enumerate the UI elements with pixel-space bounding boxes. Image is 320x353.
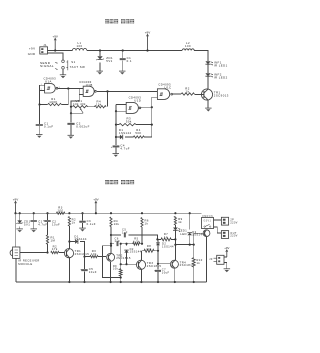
svg-text:+: + [43,220,45,223]
wire base node to R3rx [85,256,90,258]
wire U1A output [58,88,79,90]
wire Q3 collector [140,251,142,261]
wire ZD1 drop [99,51,101,57]
wire base node to C5 [84,257,86,270]
capacitor C6 coupling [117,241,118,246]
junction R3 left [115,124,117,126]
svg-text:10k: 10k [146,247,152,251]
junction Q4 coll node [174,244,176,246]
label INF1 IR LED1 [214,60,228,67]
capacitor C7 electrolytic [154,269,161,272]
junction R3 right [151,124,153,126]
svg-text:0.002uF: 0.002uF [76,124,90,128]
wire column 120 top [120,244,122,269]
title transmitter (kanji) [105,19,134,23]
wire D2a stem top [126,244,128,246]
svg-text:4.7uF: 4.7uF [120,146,130,150]
wire J1 +9V to rail [48,50,73,52]
label D2a 1SS144 [130,247,142,254]
LED INF1 (IR LED1) [205,61,212,65]
wire C2 node drop [70,107,72,123]
ground (J4) [224,269,231,272]
resistor R3rx 10k [90,249,98,258]
LED INF2 (IR LED2) [205,73,212,77]
svg-text:MODULE: MODULE [18,262,32,266]
junction C7 rail [157,281,159,283]
bottom rail (receiver) [16,281,207,283]
wire TR5 base [194,233,204,244]
svg-text:G5V1: G5V1 [204,220,212,222]
junction R9b rail [120,281,122,283]
wire R9b to rail [120,276,122,282]
junction Q2 emitter rail [110,281,112,283]
wire module output [20,252,48,254]
wire D2b stem [157,239,159,250]
wire ZD1b drop [19,213,21,220]
capacitor C2 (osc) [67,123,74,124]
wire U1A input drop [39,91,41,105]
wire Q2 feedback [102,246,120,278]
wire R2rx to Q1 base [59,252,65,254]
svg-text:S1: S1 [71,60,75,64]
label CD4093 U1B [79,80,92,87]
wire R10 stem [193,245,195,282]
junction wireA [110,234,112,236]
label J2 OUT [230,219,237,225]
power flag +9V (receiver mid) [93,197,98,213]
svg-text:LED1: LED1 [179,229,187,233]
wire C1 to ground [122,60,124,71]
label LED1 [179,229,187,236]
diode D1 (osc2) [120,135,123,140]
svg-text:2SC1815: 2SC1815 [147,264,162,268]
svg-text:10k: 10k [96,103,102,107]
wire C ends [157,238,175,240]
wire S1 to ground [62,69,64,75]
power flag +9V (transmitter left) [52,35,57,51]
svg-text:10uF: 10uF [52,222,60,226]
junction R5 right [141,243,143,245]
ground (C3b) [79,228,86,231]
label J3 OUT [230,232,237,238]
junction rail start [14,212,16,214]
wire ZD1 to ground [99,63,101,71]
svg-text:1uF: 1uF [122,230,128,234]
IR receiver module U1 [10,247,20,258]
svg-text:1uF: 1uF [115,239,121,243]
svg-text:1k: 1k [178,220,182,224]
transistor TR3 (receiver) [136,260,145,269]
svg-text:100: 100 [77,44,83,48]
wire left column (module) [15,213,17,247]
wire node to Q4 base [158,251,170,264]
wire D3 column top [189,213,191,229]
svg-text:OMRON: OMRON [202,216,213,218]
diode D3 flyback [187,233,192,236]
svg-text:220V: 220V [230,235,237,238]
resistor R1 (feedback) [48,97,62,105]
label ZD1 5V1 [106,56,113,63]
zener ZD1 [96,56,104,60]
diode D1 (receiver) [75,239,78,244]
wire R1b to out node [47,244,49,252]
wire Q3 base wire [121,263,137,265]
junction C5 rail [83,281,85,283]
label C3b [87,219,96,226]
svg-text:IR LED1: IR LED1 [214,63,228,67]
wire J4 to ground [224,263,227,269]
transistor TR2 (receiver) [107,253,115,261]
transistor TR4 (receiver) [170,260,178,268]
svg-text:+: + [80,269,82,272]
wire VR1 to R2 [88,106,95,108]
connector J1 [40,43,48,54]
junction Q3 emitter rail [140,281,142,283]
resistor R4 10k (Q2 load) [110,217,120,227]
ground (C4) [113,154,120,157]
wire A cont [128,235,157,239]
wire rail L1 to L2 [87,50,182,52]
svg-text:100: 100 [185,44,191,48]
ground (C1b) [31,229,38,232]
wire C1 drop [122,51,124,59]
wire D1 branch left [116,136,120,138]
wire C1b drop [33,213,35,220]
label ZD1b 5V1 [24,219,31,226]
pin stubs U1A inputs [40,85,45,90]
label D1 1SS144 [119,128,132,135]
label C1 0.1 [127,56,132,63]
junction TR5 base node [193,244,195,246]
label SEND SIGNAL [40,61,54,68]
connector J2 (out A) [221,217,228,225]
label D2b 1SS144 [162,242,174,249]
label CD4093 U1D [129,96,142,103]
wire R3rx to Q2 base [98,256,106,258]
wire rail L2 to corner [194,51,208,62]
svg-text:1k: 1k [197,261,201,265]
label TR3rx 2SC1815 [147,261,162,268]
label CD4093 U1A [44,77,57,84]
wire D1 to base node [80,242,85,257]
capacitor C1 (osc U1A) [36,125,43,126]
wire C4 to ground [115,148,117,154]
label C2 0.002uF [76,121,90,128]
wire Q2 emitter [110,262,112,282]
label TR4rx 2SC1815 [180,260,195,267]
junction LED col top [174,212,176,214]
wire B to R6 column [140,243,142,245]
svg-text:0.1uF: 0.1uF [44,124,54,128]
gate U1B [83,86,96,96]
wire input node to C1osc [39,105,41,124]
wire R1 ends [40,104,69,106]
label D3 1SS144 [192,230,204,237]
label CD4093 U1C [158,82,171,89]
junction wireB [110,243,112,245]
label S1 TACT SW [70,60,85,69]
junction mid-rail flag [146,49,148,51]
junction Q2 collector [110,245,112,247]
resistor R9b 10k [113,265,122,276]
junction LED col wireC [174,238,176,240]
label TR2rx 2SC1815 [116,253,131,260]
label C6c [115,236,121,243]
junction VR1 left [70,106,72,108]
wire C2 to ground [70,125,72,135]
wire relay contacts to J2 [214,219,222,221]
wire Q1 emitter [68,258,70,282]
junction D1 left [115,136,117,138]
svg-text:TACT SW: TACT SW [70,65,85,69]
svg-text:0.1: 0.1 [127,59,132,63]
potentiometer VR1 [73,99,88,113]
wire D3 bottom [189,235,191,244]
label GND (J1 pin) [28,52,36,56]
wire R2 to TR1 base [194,93,204,95]
label C5c 1uF [122,228,128,235]
junction C7 tap [157,263,159,265]
label C1 0.1uF [44,121,54,128]
ground (TR1) [205,108,212,111]
transistor TR1 [201,89,212,100]
wire U1B output [97,90,158,92]
inductor L1 [72,41,86,50]
resistor R2rx 47k (base) [51,244,59,253]
resistor R8 10k (Q3 coll) [144,244,154,252]
pin stubs U1B inputs [79,89,83,95]
wire D2a to base wire [126,253,128,265]
svg-text:LED: LED [180,232,187,236]
wire LED1b down [174,230,176,244]
svg-text:1SS144: 1SS144 [119,131,132,135]
label D1rx 1SS144 [74,234,87,241]
transistor TR5 (relay driver) [203,230,210,237]
svg-text:+: + [111,146,113,149]
svg-text:100K: 100K [49,100,57,104]
junction U1B out to R2t [106,90,108,92]
wire U1B input to VR node [71,94,79,106]
svg-text:J1: J1 [43,43,47,47]
junction D3 bottom node [189,244,191,246]
wire TR1 emitter to ground [207,100,209,108]
svg-text:1k: 1k [164,235,168,239]
junction ZD1b [19,212,21,214]
switch S1 contacts [55,60,68,70]
junction ZD1 [99,49,101,51]
svg-text:4.7k: 4.7k [133,239,140,243]
diode D2 (second) [156,243,160,245]
wire Q4 collector [174,245,176,260]
resistor R1 (receiver) [46,235,55,244]
resistor R3 in rail [56,206,64,215]
wire U1D input column [115,111,117,145]
svg-text:10uF: 10uF [162,270,170,274]
svg-text:0.1uF: 0.1uF [87,222,96,226]
svg-text:47k: 47k [52,247,58,251]
junction Q4 emitter rail [174,281,176,283]
wire C5 to rail [84,271,86,282]
svg-text:10k: 10k [91,252,97,256]
inductor L2 [182,41,194,50]
label C1b 4.7uF [38,219,47,226]
title receiver (kanji) [105,180,134,184]
label INF2 IR LED2 [214,72,228,79]
junction +9V mid [95,212,97,214]
junction D2a top [125,243,127,245]
label relay OMRON [202,216,213,218]
junction Q3 coll node [157,250,159,252]
svg-text:10k: 10k [113,268,119,271]
junction C3b top [81,212,83,214]
wire node wire y244.7 [175,244,193,246]
junction wireC node [156,238,158,240]
junction Q2 base node [83,256,85,258]
resistor R10 1k [192,258,203,267]
junction R2b top [68,212,70,214]
wire C7 stem [157,264,159,282]
junction Q1 emitter rail [68,281,70,283]
svg-text:1k: 1k [186,90,190,94]
resistor R5 4.7k [133,237,140,246]
wire D1 to R4 [125,136,133,138]
junction D2a base [125,263,127,265]
wire C3b to ground [82,223,84,228]
wire LED1 to LED2 [207,64,209,73]
junction Q1 collector node [68,240,70,242]
junction C1 top [122,49,124,51]
label TR1 2SC9013 [214,91,229,98]
svg-text:4.7uF: 4.7uF [38,222,47,226]
wire Q1 coll to D1 [69,241,75,243]
junction R10 rail [193,281,195,283]
capacitor C1 (rail) [120,59,126,60]
resistor R2 (base) [181,86,194,95]
wire ZD1b to ground [19,226,21,228]
svg-text:2SC1815: 2SC1815 [75,252,90,256]
relay RL1 box [202,218,214,229]
resistor R4 (osc2) [133,128,144,138]
label J4 [209,257,213,261]
wire Q1 collector [68,242,70,249]
wire R4 to out column [144,136,152,138]
label +9V (J1 pin) [29,47,36,51]
junction base-column cross [120,263,122,265]
svg-text:1SS144: 1SS144 [162,244,174,248]
junction module out node [46,251,48,253]
label IR RECEIVER MODULE [18,259,40,266]
wire C3b drop [82,213,84,220]
resistor R3 [119,117,136,126]
label C5rx 10uF [89,267,97,274]
rail top (receiver) [16,212,202,214]
svg-text:50k: 50k [126,120,132,124]
gate U1C [157,89,172,100]
diode D2 (first) [124,250,128,253]
label C7rx 10uF [162,268,170,275]
svg-text:+: + [154,269,156,272]
resistor R9 1k (LED) [174,216,182,225]
wire Q2 collector [110,246,112,253]
wire R3 ends [116,124,152,126]
junction column 120 top [120,243,122,245]
pin stubs U1D [116,104,126,111]
svg-text:2SC1815: 2SC1815 [116,256,131,260]
junction +9V flag [54,49,56,51]
capacitor C5 coupling [124,233,125,238]
svg-text:1M: 1M [51,239,56,243]
junction U1D input tie [115,110,117,112]
wire Q3 coll wire [141,250,158,252]
capacitor C2 electrolytic [43,220,51,223]
wire U1C out to R2 [173,93,181,95]
wire C2b to R1b [47,222,49,235]
svg-text:220V: 220V [230,221,237,224]
svg-text:10k 40k: 10k 40k [73,102,86,106]
capacitor C1 (receiver) [31,221,37,222]
power flag +9V (receiver left) [13,197,18,213]
svg-text:SIGNAL: SIGNAL [40,64,54,68]
wire U1A feedback drop [67,89,69,105]
resistor R7 1k [161,232,171,241]
svg-text:10uF: 10uF [89,270,97,274]
junction C2 node [70,112,72,114]
power flag +9V (mid rail) [145,31,150,51]
wire +9V to J4 [224,256,227,258]
wire J1 GND pin [48,53,64,60]
wire A with C5 [111,234,121,236]
svg-text:2SC9013: 2SC9013 [214,94,229,98]
wire B mid [121,243,133,245]
resistor R2 1k (collector load) [68,217,76,227]
wire R9 to LED1b [174,225,176,227]
capacitor C4 (osc2) [111,146,120,149]
svg-text:U1D: U1D [134,99,141,103]
junction U1A feedback [67,87,69,89]
label TR1rx 2SC1815 [75,249,90,256]
wire R2b to collector node [68,226,70,242]
label relay G5V1 [204,220,212,222]
ground (ZD1) [97,71,104,74]
pin numbers U1A [41,84,61,91]
junction D3 top [189,212,191,214]
junction R4b top [110,212,112,214]
svg-text:1k: 1k [72,221,76,225]
junction U1D out node [151,106,153,108]
capacitor C5 electrolytic 10uF [80,269,88,272]
connector J3 (out B) [221,231,228,239]
svg-text:50K: 50K [135,131,141,135]
svg-text:100: 100 [58,208,64,212]
wire U1C-in/U1D-out vertical [151,97,153,137]
wire VR1 wiper to C2 node [71,112,83,114]
wire R4b down [110,227,112,246]
wire relay to J3 connector [214,227,222,233]
pin stubs U1C [152,91,158,97]
resistor R2 (osc) [94,100,106,108]
wire module to bottom rail [15,258,17,282]
svg-text:1SS144: 1SS144 [74,237,87,241]
relay contact symbol [204,224,211,227]
transistor TR1 (receiver) [64,249,73,258]
ground (S1) [60,75,66,78]
wire U1D output [141,106,152,108]
junction U1A input node [38,103,40,105]
ground (C2) [68,135,75,138]
power flag +9V (J4) [224,246,229,257]
svg-text:5V1: 5V1 [24,222,30,226]
LED LED1 (receiver) [173,228,180,232]
